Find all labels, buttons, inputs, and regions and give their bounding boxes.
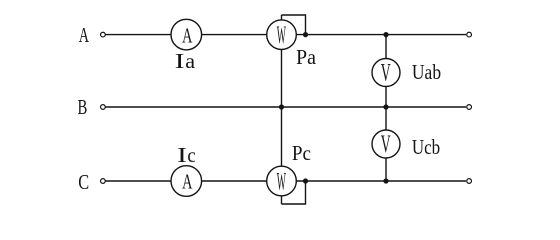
svg-text:Uab: Uab [412,62,441,85]
svg-text:A: A [79,23,89,46]
svg-text:C: C [78,171,89,194]
svg-text:Ucb: Ucb [412,136,440,159]
svg-text:V: V [381,131,391,158]
svg-text:W: W [277,22,286,50]
svg-text:Pa: Pa [296,47,316,70]
svg-text:W: W [277,168,286,196]
svg-text:V: V [381,60,391,87]
svg-text:B: B [77,95,87,118]
svg-text:A: A [182,170,192,193]
svg-text:c: c [187,144,195,167]
svg-text:I: I [177,143,187,167]
svg-text:Pc: Pc [292,142,311,165]
svg-text:A: A [182,24,192,47]
svg-text:I: I [175,49,185,73]
svg-text:a: a [185,50,195,73]
